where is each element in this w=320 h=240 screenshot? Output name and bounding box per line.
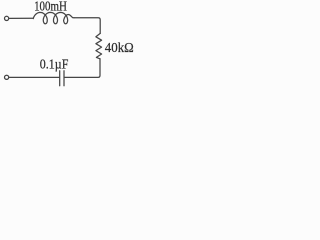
terminal top-left [5,16,9,20]
wire top-right with corner [74,18,100,34]
inductor L1 100mH [33,12,74,23]
capacitor C1 left plate [59,71,61,86]
wire right-bottom with corner [65,59,100,78]
wire top from terminal to inductor [9,17,33,19]
capacitor C1 right plate [63,71,65,86]
svg-text:40kΩ: 40kΩ [105,40,134,55]
wire bottom from capacitor to terminal [9,76,59,78]
svg-text:100mH: 100mH [34,0,67,14]
resistor R1 40k [96,33,102,58]
terminal bottom-left [5,75,9,79]
svg-text:0.1µF: 0.1µF [40,57,69,72]
